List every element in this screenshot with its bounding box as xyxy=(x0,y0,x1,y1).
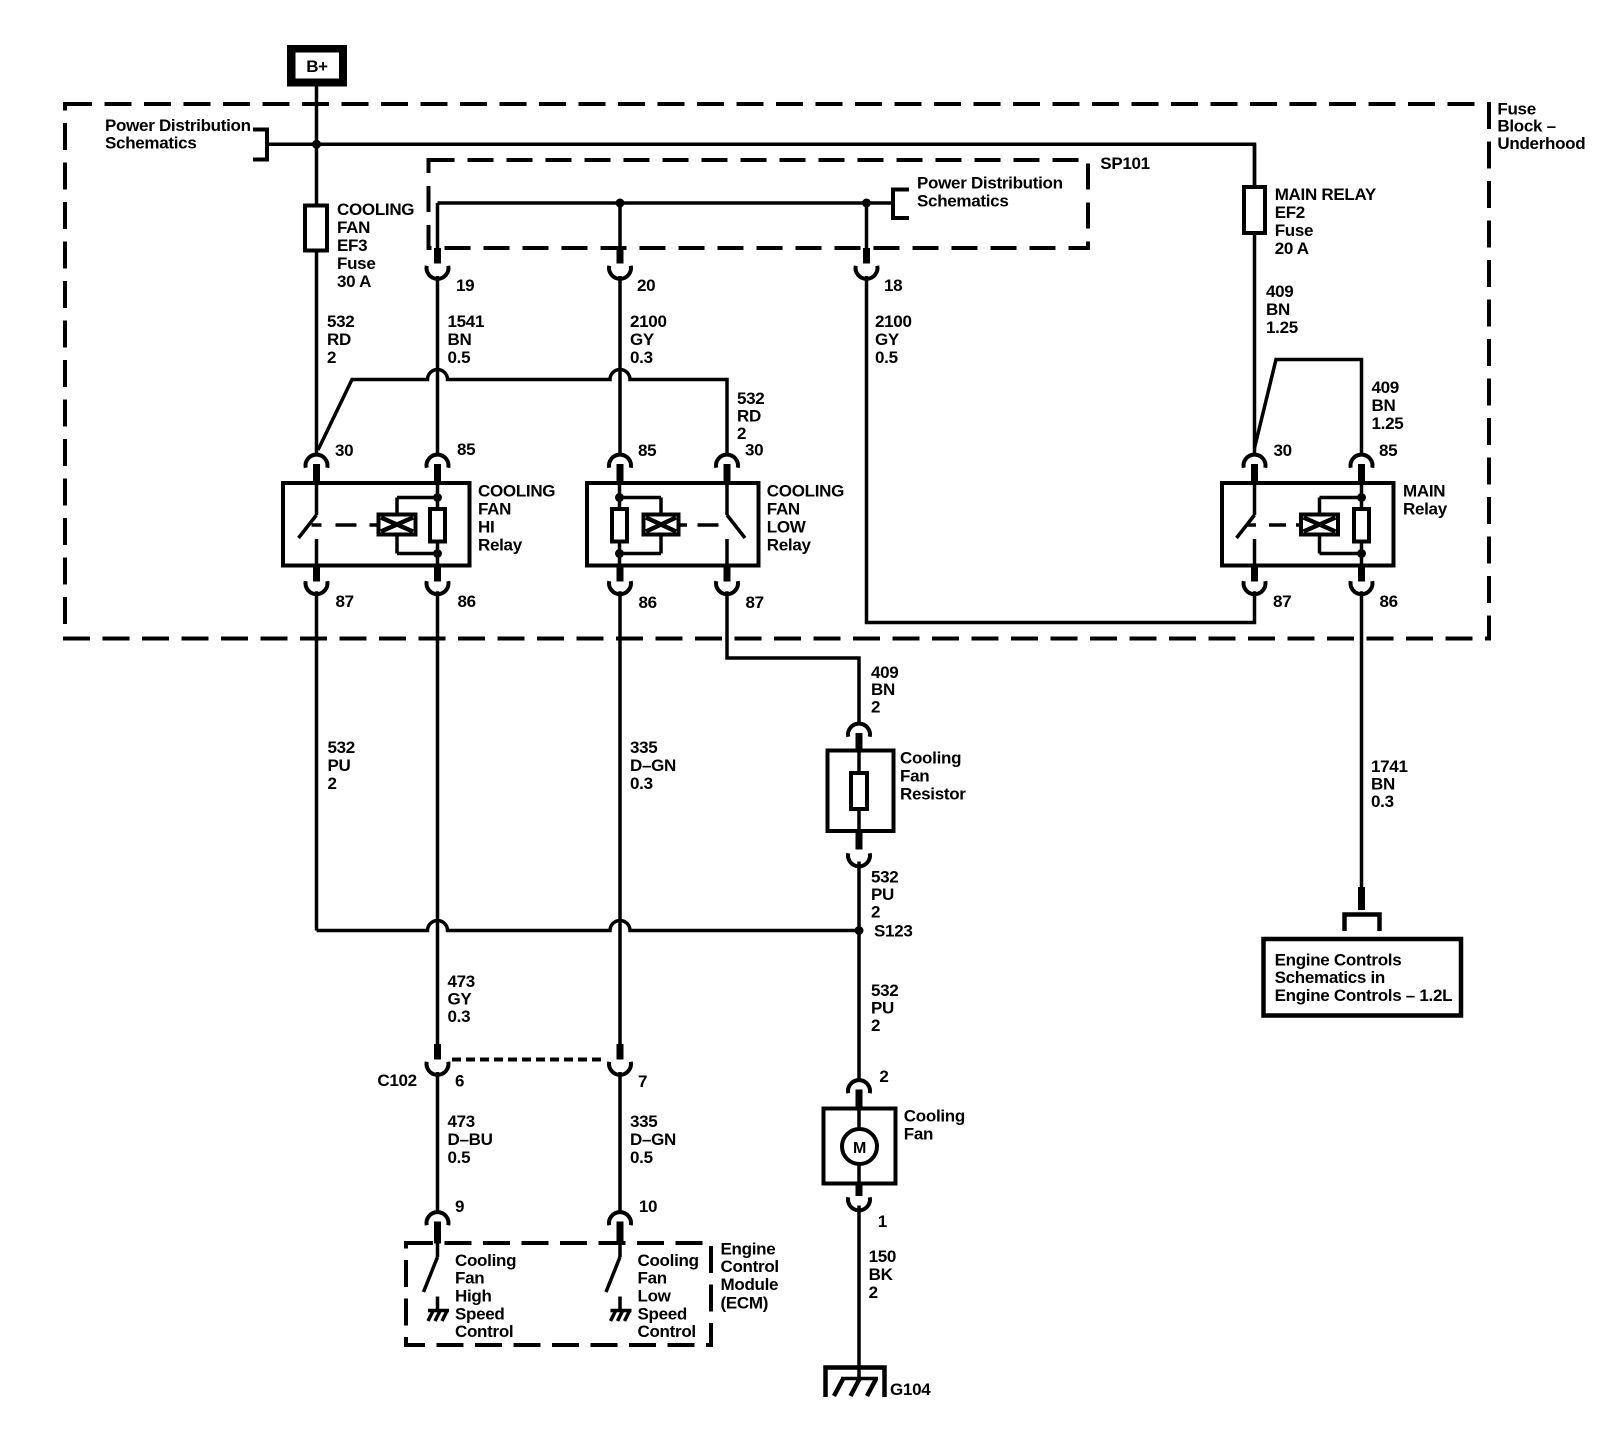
svg-text:87: 87 xyxy=(746,593,764,612)
off-page connector bracket (1741 BN) xyxy=(1345,887,1380,931)
svg-text:D–GN: D–GN xyxy=(630,1130,676,1149)
relay COOLING FAN LOW label xyxy=(767,482,844,555)
wire label 2100 GY 0.3 xyxy=(630,312,667,367)
svg-text:GY: GY xyxy=(630,330,655,349)
svg-text:PU: PU xyxy=(871,999,894,1018)
relay COOLING FAN HI label xyxy=(478,482,555,555)
svg-text:Fan: Fan xyxy=(904,1124,933,1143)
relay COOLING FAN HI linkage dashes xyxy=(312,523,380,527)
svg-text:EF2: EF2 xyxy=(1275,203,1305,222)
wire: 150 BK 2 fan to G104 xyxy=(857,1206,861,1379)
cooling fan resistor connector bottom xyxy=(848,830,870,866)
relay COOLING FAN HI coil junction dots xyxy=(433,493,442,558)
svg-text:Fan: Fan xyxy=(638,1269,667,1288)
junction dot wire 18 tee xyxy=(862,199,871,208)
wire: 532 PU 2 resistor to S123 xyxy=(857,862,861,931)
ECM internal ground (low) xyxy=(611,1297,632,1322)
wire label 2100 GY 0.5 xyxy=(875,312,912,367)
wire: branch to MAIN relay pin 85 xyxy=(1255,360,1362,454)
junction dot at B+ column xyxy=(312,140,321,149)
svg-text:Relay: Relay xyxy=(767,536,812,555)
svg-text:Block –: Block – xyxy=(1497,117,1555,136)
svg-text:2100: 2100 xyxy=(875,312,912,331)
relay COOLING FAN HI box xyxy=(283,483,470,566)
svg-text:Power Distribution: Power Distribution xyxy=(105,116,251,135)
pin labels 30/85 top xyxy=(335,440,1397,460)
cooling fan connector pin 2 xyxy=(848,1080,870,1110)
svg-text:FAN: FAN xyxy=(337,218,370,237)
cooling fan motor xyxy=(824,1109,896,1184)
svg-text:30: 30 xyxy=(335,441,353,460)
svg-text:30: 30 xyxy=(1274,441,1292,460)
svg-text:87: 87 xyxy=(1273,592,1291,611)
relay COOLING FAN LOW coil loop xyxy=(620,498,662,554)
cooling fan resistor connector top xyxy=(848,724,870,752)
svg-text:BN: BN xyxy=(871,680,895,699)
svg-text:Fuse: Fuse xyxy=(1275,221,1313,240)
label Cooling Fan xyxy=(904,1107,965,1144)
wire 18 upper segment xyxy=(865,203,869,248)
svg-text:RD: RD xyxy=(327,330,351,349)
svg-text:409: 409 xyxy=(1266,282,1293,301)
svg-text:Fuse: Fuse xyxy=(337,254,375,273)
svg-text:Underhood: Underhood xyxy=(1497,134,1585,153)
relay MAIN coil xyxy=(1354,484,1369,564)
svg-text:2: 2 xyxy=(871,1016,880,1035)
relay MAIN coil loop xyxy=(1320,498,1362,554)
connector C102 pin 7 xyxy=(609,1044,631,1075)
svg-text:85: 85 xyxy=(638,441,656,460)
label Fuse Block - Underhood xyxy=(1497,100,1585,154)
svg-text:Resistor: Resistor xyxy=(900,784,966,803)
svg-text:30 A: 30 A xyxy=(337,272,371,291)
wire label 150 BK 2 xyxy=(869,1247,896,1302)
wire: SP101 bus (y=203) xyxy=(438,201,892,205)
wire 19: 1541 BN 0.5 down to HI relay pin 85 xyxy=(436,276,440,454)
svg-text:1: 1 xyxy=(878,1212,887,1231)
wire label 1741 BN 0.3 xyxy=(1371,757,1408,811)
relay MAIN switch xyxy=(1237,484,1255,564)
svg-text:G104: G104 xyxy=(890,1380,931,1399)
svg-text:M: M xyxy=(853,1140,866,1157)
ECM pin 9 connector xyxy=(427,1212,449,1243)
svg-text:GY: GY xyxy=(448,990,473,1009)
B+ power symbol xyxy=(287,45,347,87)
relay pin connectors top xyxy=(306,455,328,484)
svg-text:B+: B+ xyxy=(306,57,328,76)
svg-text:Control: Control xyxy=(721,1257,779,1276)
wire label 409 BN 1.25 (branch) xyxy=(1372,378,1404,433)
relay COOLING FAN HI coil xyxy=(430,484,445,564)
svg-text:86: 86 xyxy=(639,593,657,612)
fuse block underhood dashed box xyxy=(65,104,1489,639)
svg-text:6: 6 xyxy=(455,1072,464,1091)
svg-text:Relay: Relay xyxy=(478,536,523,555)
relay COOLING FAN LOW switch xyxy=(727,484,745,564)
svg-text:2: 2 xyxy=(879,1067,888,1086)
svg-text:MAIN RELAY: MAIN RELAY xyxy=(1275,185,1377,204)
wire: LOW 86 down 335 D-GN to C102-7 xyxy=(618,591,622,1044)
wire label 473 D-BU 0.5 xyxy=(448,1112,493,1167)
relay COOLING FAN HI solenoid X-box xyxy=(379,515,416,535)
pin labels 87/86 bottom xyxy=(336,592,1398,612)
relay MAIN box xyxy=(1222,483,1394,566)
svg-text:85: 85 xyxy=(457,440,475,459)
ECM low speed driver switch xyxy=(606,1244,620,1293)
cooling fan resistor xyxy=(828,751,894,832)
wire 19 upper segment xyxy=(436,203,440,248)
relay MAIN linkage dashes xyxy=(1246,523,1302,527)
wire: HI 86 down 473 GY to C102-6 xyxy=(436,591,440,1044)
wire label 532 PU 2 (below S123) xyxy=(871,981,898,1035)
svg-text:532: 532 xyxy=(871,868,898,887)
wire label 335 D-GN 0.3 xyxy=(630,738,676,793)
connector pin 19 xyxy=(427,248,449,279)
svg-text:Module: Module xyxy=(721,1275,779,1294)
svg-text:SP101: SP101 xyxy=(1100,154,1150,173)
relay MAIN label xyxy=(1403,482,1448,519)
svg-text:Cooling: Cooling xyxy=(638,1251,699,1270)
svg-text:Engine: Engine xyxy=(721,1239,776,1258)
svg-text:0.3: 0.3 xyxy=(1371,792,1394,811)
svg-text:Cooling: Cooling xyxy=(900,749,961,768)
svg-text:2: 2 xyxy=(328,774,337,793)
off-page ref: Power Distribution Schematics (right) xyxy=(893,174,1063,221)
label Cooling Fan Resistor xyxy=(900,749,966,804)
svg-text:86: 86 xyxy=(1380,592,1398,611)
svg-text:0.3: 0.3 xyxy=(630,348,653,367)
svg-text:Schematics in: Schematics in xyxy=(1275,968,1385,987)
relay MAIN coil junction dots xyxy=(1357,493,1366,558)
svg-text:20: 20 xyxy=(637,276,655,295)
svg-text:Speed: Speed xyxy=(455,1304,505,1323)
relay COOLING FAN LOW box xyxy=(587,483,759,566)
wire label 532 RD 2 (right) xyxy=(737,389,764,443)
wire label 335 D-GN 0.5 xyxy=(630,1112,676,1167)
svg-text:1541: 1541 xyxy=(448,312,485,331)
svg-text:Relay: Relay xyxy=(1403,500,1448,519)
svg-text:Power Distribution: Power Distribution xyxy=(917,174,1063,193)
label COOLING FAN EF3 Fuse 30 A xyxy=(337,200,414,291)
svg-text:86: 86 xyxy=(458,592,476,611)
svg-text:0.5: 0.5 xyxy=(630,1148,653,1167)
relay COOLING FAN LOW linkage dashes xyxy=(678,523,719,527)
svg-text:Engine Controls – 1.2L: Engine Controls – 1.2L xyxy=(1275,986,1453,1005)
cooling fan connector pin 1 xyxy=(848,1183,870,1211)
svg-text:(ECM): (ECM) xyxy=(721,1293,769,1312)
svg-text:PU: PU xyxy=(328,756,351,775)
relay COOLING FAN HI coil loop xyxy=(397,498,438,554)
svg-text:409: 409 xyxy=(1372,378,1399,397)
wire: MAIN 86 down 1741 BN 0.3 xyxy=(1360,591,1364,887)
svg-text:FAN: FAN xyxy=(478,500,511,519)
svg-text:Cooling: Cooling xyxy=(904,1107,965,1126)
svg-text:532: 532 xyxy=(328,738,355,757)
wire label 409 BN 1.25 xyxy=(1266,282,1298,337)
relay COOLING FAN LOW solenoid X-box xyxy=(644,515,679,535)
wire: 532 RD 2 feed to relay 30 pins (with hops) xyxy=(318,370,727,454)
svg-text:532: 532 xyxy=(327,312,354,331)
svg-text:BK: BK xyxy=(869,1265,894,1284)
svg-text:335: 335 xyxy=(630,1112,657,1131)
junction dot wire 20 tee xyxy=(616,199,625,208)
svg-text:COOLING: COOLING xyxy=(478,482,555,501)
svg-text:BN: BN xyxy=(448,330,472,349)
fuse EF3 COOLING FAN EF3 30A xyxy=(305,206,327,251)
svg-text:Fan: Fan xyxy=(455,1269,484,1288)
svg-text:Low: Low xyxy=(638,1287,672,1306)
svg-text:20 A: 20 A xyxy=(1275,239,1309,258)
svg-text:1.25: 1.25 xyxy=(1372,414,1404,433)
relay COOLING FAN LOW coil junction dots xyxy=(615,493,624,558)
svg-text:2: 2 xyxy=(869,1283,878,1302)
svg-text:85: 85 xyxy=(1379,441,1397,460)
wire: 473 D-BU 0.5 to ECM pin 9 xyxy=(436,1072,440,1211)
connector pin 18 xyxy=(856,248,878,279)
svg-text:Schematics: Schematics xyxy=(917,192,1009,211)
svg-text:2: 2 xyxy=(871,698,880,717)
svg-text:532: 532 xyxy=(737,389,764,408)
relay pin connectors bottom xyxy=(306,564,328,594)
svg-text:Control: Control xyxy=(455,1322,513,1341)
relay COOLING FAN HI switch xyxy=(299,484,317,564)
svg-text:BN: BN xyxy=(1266,300,1290,319)
svg-text:1741: 1741 xyxy=(1371,757,1408,776)
ECM high speed driver switch xyxy=(424,1244,438,1293)
relay COOLING FAN LOW coil xyxy=(612,484,627,564)
ground G104 xyxy=(826,1368,885,1398)
svg-text:0.3: 0.3 xyxy=(630,774,653,793)
svg-text:S123: S123 xyxy=(874,922,913,941)
svg-text:0.3: 0.3 xyxy=(448,1007,471,1026)
svg-text:RD: RD xyxy=(737,407,761,426)
svg-text:Cooling: Cooling xyxy=(455,1251,516,1270)
svg-text:7: 7 xyxy=(638,1072,647,1091)
ECM internal ground (high) xyxy=(428,1297,449,1322)
svg-text:Schematics: Schematics xyxy=(105,134,197,153)
svg-text:0.5: 0.5 xyxy=(448,1148,471,1167)
svg-text:EF3: EF3 xyxy=(337,236,367,255)
svg-text:PU: PU xyxy=(871,885,894,904)
svg-text:150: 150 xyxy=(869,1247,896,1266)
svg-text:Control: Control xyxy=(638,1322,696,1341)
svg-text:D–GN: D–GN xyxy=(630,756,676,775)
svg-text:87: 87 xyxy=(336,592,354,611)
svg-text:2: 2 xyxy=(327,348,336,367)
svg-text:High: High xyxy=(455,1287,492,1306)
wire: 335 D-GN 0.5 to ECM pin 10 xyxy=(618,1072,622,1211)
svg-text:C102: C102 xyxy=(377,1071,416,1090)
C102 dashed link xyxy=(452,1058,606,1062)
engine controls schematics box xyxy=(1264,939,1462,1016)
ECM dashed box xyxy=(406,1243,711,1345)
svg-text:GY: GY xyxy=(875,330,900,349)
connector C102 pin 6 xyxy=(427,1044,449,1075)
splice pack SP101 dashed box xyxy=(429,160,1089,248)
svg-text:HI: HI xyxy=(478,518,494,537)
wire label 473 GY 0.3 xyxy=(448,972,475,1026)
svg-text:0.5: 0.5 xyxy=(448,348,471,367)
wire: LOW 87 down to cooling fan resistor xyxy=(727,591,859,722)
svg-text:30: 30 xyxy=(745,441,763,460)
label Cooling Fan High Speed Control xyxy=(455,1251,516,1341)
svg-text:MAIN: MAIN xyxy=(1403,482,1445,501)
svg-text:473: 473 xyxy=(448,1112,475,1131)
svg-text:Engine Controls: Engine Controls xyxy=(1275,951,1402,970)
svg-text:18: 18 xyxy=(884,276,902,295)
svg-text:D–BU: D–BU xyxy=(448,1130,493,1149)
svg-text:10: 10 xyxy=(639,1197,657,1216)
fuse EF2 MAIN RELAY 20A xyxy=(1244,187,1265,233)
relay MAIN solenoid X-box xyxy=(1301,515,1338,535)
svg-text:COOLING: COOLING xyxy=(337,200,414,219)
svg-text:BN: BN xyxy=(1371,775,1395,794)
svg-text:Speed: Speed xyxy=(638,1304,688,1323)
ECM pin 10 connector xyxy=(609,1212,631,1243)
wire: B+ down through fuse EF3 to relay pin 30 xyxy=(315,87,319,454)
wire: EF2 fuse to MAIN relay pin 30 xyxy=(1253,144,1257,453)
wire label 532 RD 2 xyxy=(327,312,354,367)
svg-text:Fan: Fan xyxy=(900,767,929,786)
svg-text:FAN: FAN xyxy=(767,500,800,519)
svg-text:532: 532 xyxy=(871,981,898,1000)
splice S123 junction dot xyxy=(855,926,864,935)
wire: S123 down to cooling fan, 532 PU 2 xyxy=(857,931,861,1080)
label Engine Control Module (ECM) xyxy=(721,1239,779,1312)
svg-text:0.5: 0.5 xyxy=(875,348,898,367)
svg-text:LOW: LOW xyxy=(767,518,807,537)
wire: HI 87 down 532 PU 2 xyxy=(315,591,319,930)
svg-text:BN: BN xyxy=(1372,396,1396,415)
wire 20: 2100 GY 0.3 down to LOW relay pin 85 xyxy=(618,276,622,454)
label Engine Controls Schematics xyxy=(1275,951,1453,1005)
label Cooling Fan Low Speed Control xyxy=(638,1251,699,1341)
svg-text:2100: 2100 xyxy=(630,312,667,331)
wire: B+ bus to EF2 fuse (horizontal y=144) xyxy=(267,144,1255,187)
svg-text:19: 19 xyxy=(456,276,474,295)
svg-text:335: 335 xyxy=(630,738,657,757)
svg-text:9: 9 xyxy=(455,1197,464,1216)
label MAIN RELAY EF2 Fuse 20 A xyxy=(1275,185,1377,258)
wire label 532 PU 2 xyxy=(328,738,355,793)
wire label 532 PU 2 (above S123) xyxy=(871,868,898,922)
svg-text:2: 2 xyxy=(871,903,880,922)
wire: S123 splice line (with hops) xyxy=(317,921,860,931)
svg-text:473: 473 xyxy=(448,972,475,991)
connector pin 20 xyxy=(609,248,631,279)
wire label 1541 BN 0.5 xyxy=(448,312,485,367)
svg-text:COOLING: COOLING xyxy=(767,482,844,501)
off-page ref: Power Distribution Schematics (left) xyxy=(105,116,267,162)
wire 18: 2100 GY 0.5 down and over to MAIN relay pin 87 xyxy=(867,276,1255,623)
wire 20 upper segment xyxy=(618,203,622,248)
wire label 409 BN 2 xyxy=(871,663,898,717)
svg-text:1.25: 1.25 xyxy=(1266,318,1298,337)
